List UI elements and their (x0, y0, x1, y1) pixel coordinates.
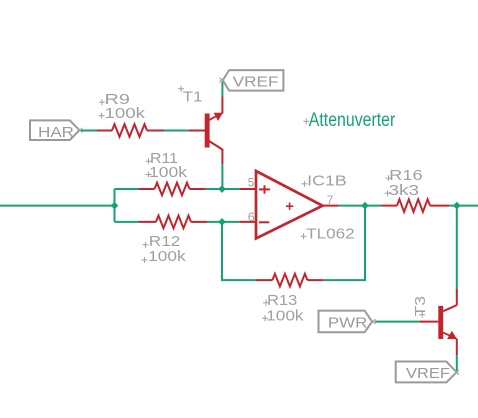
svg-text:R16: R16 (389, 168, 423, 184)
net label HAR (30, 120, 82, 140)
wire R11 to pin 5 (205, 188, 239, 190)
svg-text:TL062: TL062 (306, 226, 355, 242)
svg-text:PWR: PWR (328, 315, 368, 332)
wire node pin6 down to R13 (222, 222, 256, 280)
wire R13 to output node (324, 206, 365, 281)
svg-text:3k3: 3k3 (389, 183, 420, 199)
svg-text:T1: T1 (183, 90, 203, 106)
svg-text:T3: T3 (413, 296, 429, 317)
wire R12 to pin 6 (207, 221, 240, 223)
node right junction (453, 202, 461, 210)
wire to R12 left (115, 221, 140, 223)
wire R9 to T1 base (164, 130, 189, 132)
resistor R13 (256, 274, 324, 325)
text Attenuverter (303, 110, 396, 131)
svg-text:VREF: VREF (233, 74, 279, 91)
wire to R11 left (115, 188, 140, 190)
resistor R16 (382, 168, 450, 212)
wire input net from left edge (0, 205, 115, 207)
node output junction (361, 202, 369, 210)
wire T1 emitter to VREF (221, 82, 223, 97)
node junction pin6/R13 (218, 218, 226, 226)
svg-text:100k: 100k (148, 249, 186, 265)
svg-text:6: 6 (248, 210, 255, 224)
resistor R11 (139, 151, 205, 195)
svg-text:R12: R12 (149, 234, 181, 250)
node input junction (111, 202, 119, 210)
resistor R9 (97, 92, 164, 137)
svg-text:100k: 100k (266, 308, 304, 324)
wire HAR to R9 (81, 130, 98, 132)
wire R16 to right edge (449, 205, 478, 207)
node junction pin5/T1 (218, 185, 226, 193)
net label VREF bottom (396, 362, 459, 383)
transistor T1 (178, 86, 223, 164)
svg-text:7: 7 (327, 193, 334, 207)
wire right node down to T3 collector (456, 206, 458, 289)
wire vertical branch at input node (114, 189, 116, 222)
op-amp U1 IC1B (240, 171, 355, 242)
wire PWR to T3 base (375, 321, 419, 323)
net label PWR (319, 311, 376, 333)
svg-text:100k: 100k (149, 165, 188, 181)
svg-text:VREF: VREF (406, 365, 450, 382)
wire op-amp output net (339, 205, 382, 207)
resistor R12 (139, 216, 207, 265)
wire T1 collector to node A (221, 164, 223, 189)
svg-text:R13: R13 (267, 293, 297, 309)
svg-text:IC1B: IC1B (307, 174, 347, 190)
net label VREF top (219, 70, 283, 91)
wire T3 emitter to VREF (456, 355, 458, 371)
svg-text:100k: 100k (105, 106, 146, 122)
transistor T3 (413, 289, 457, 356)
svg-text:5: 5 (248, 176, 255, 190)
svg-text:Attenuverter: Attenuverter (309, 110, 396, 131)
svg-text:HAR: HAR (38, 124, 74, 141)
